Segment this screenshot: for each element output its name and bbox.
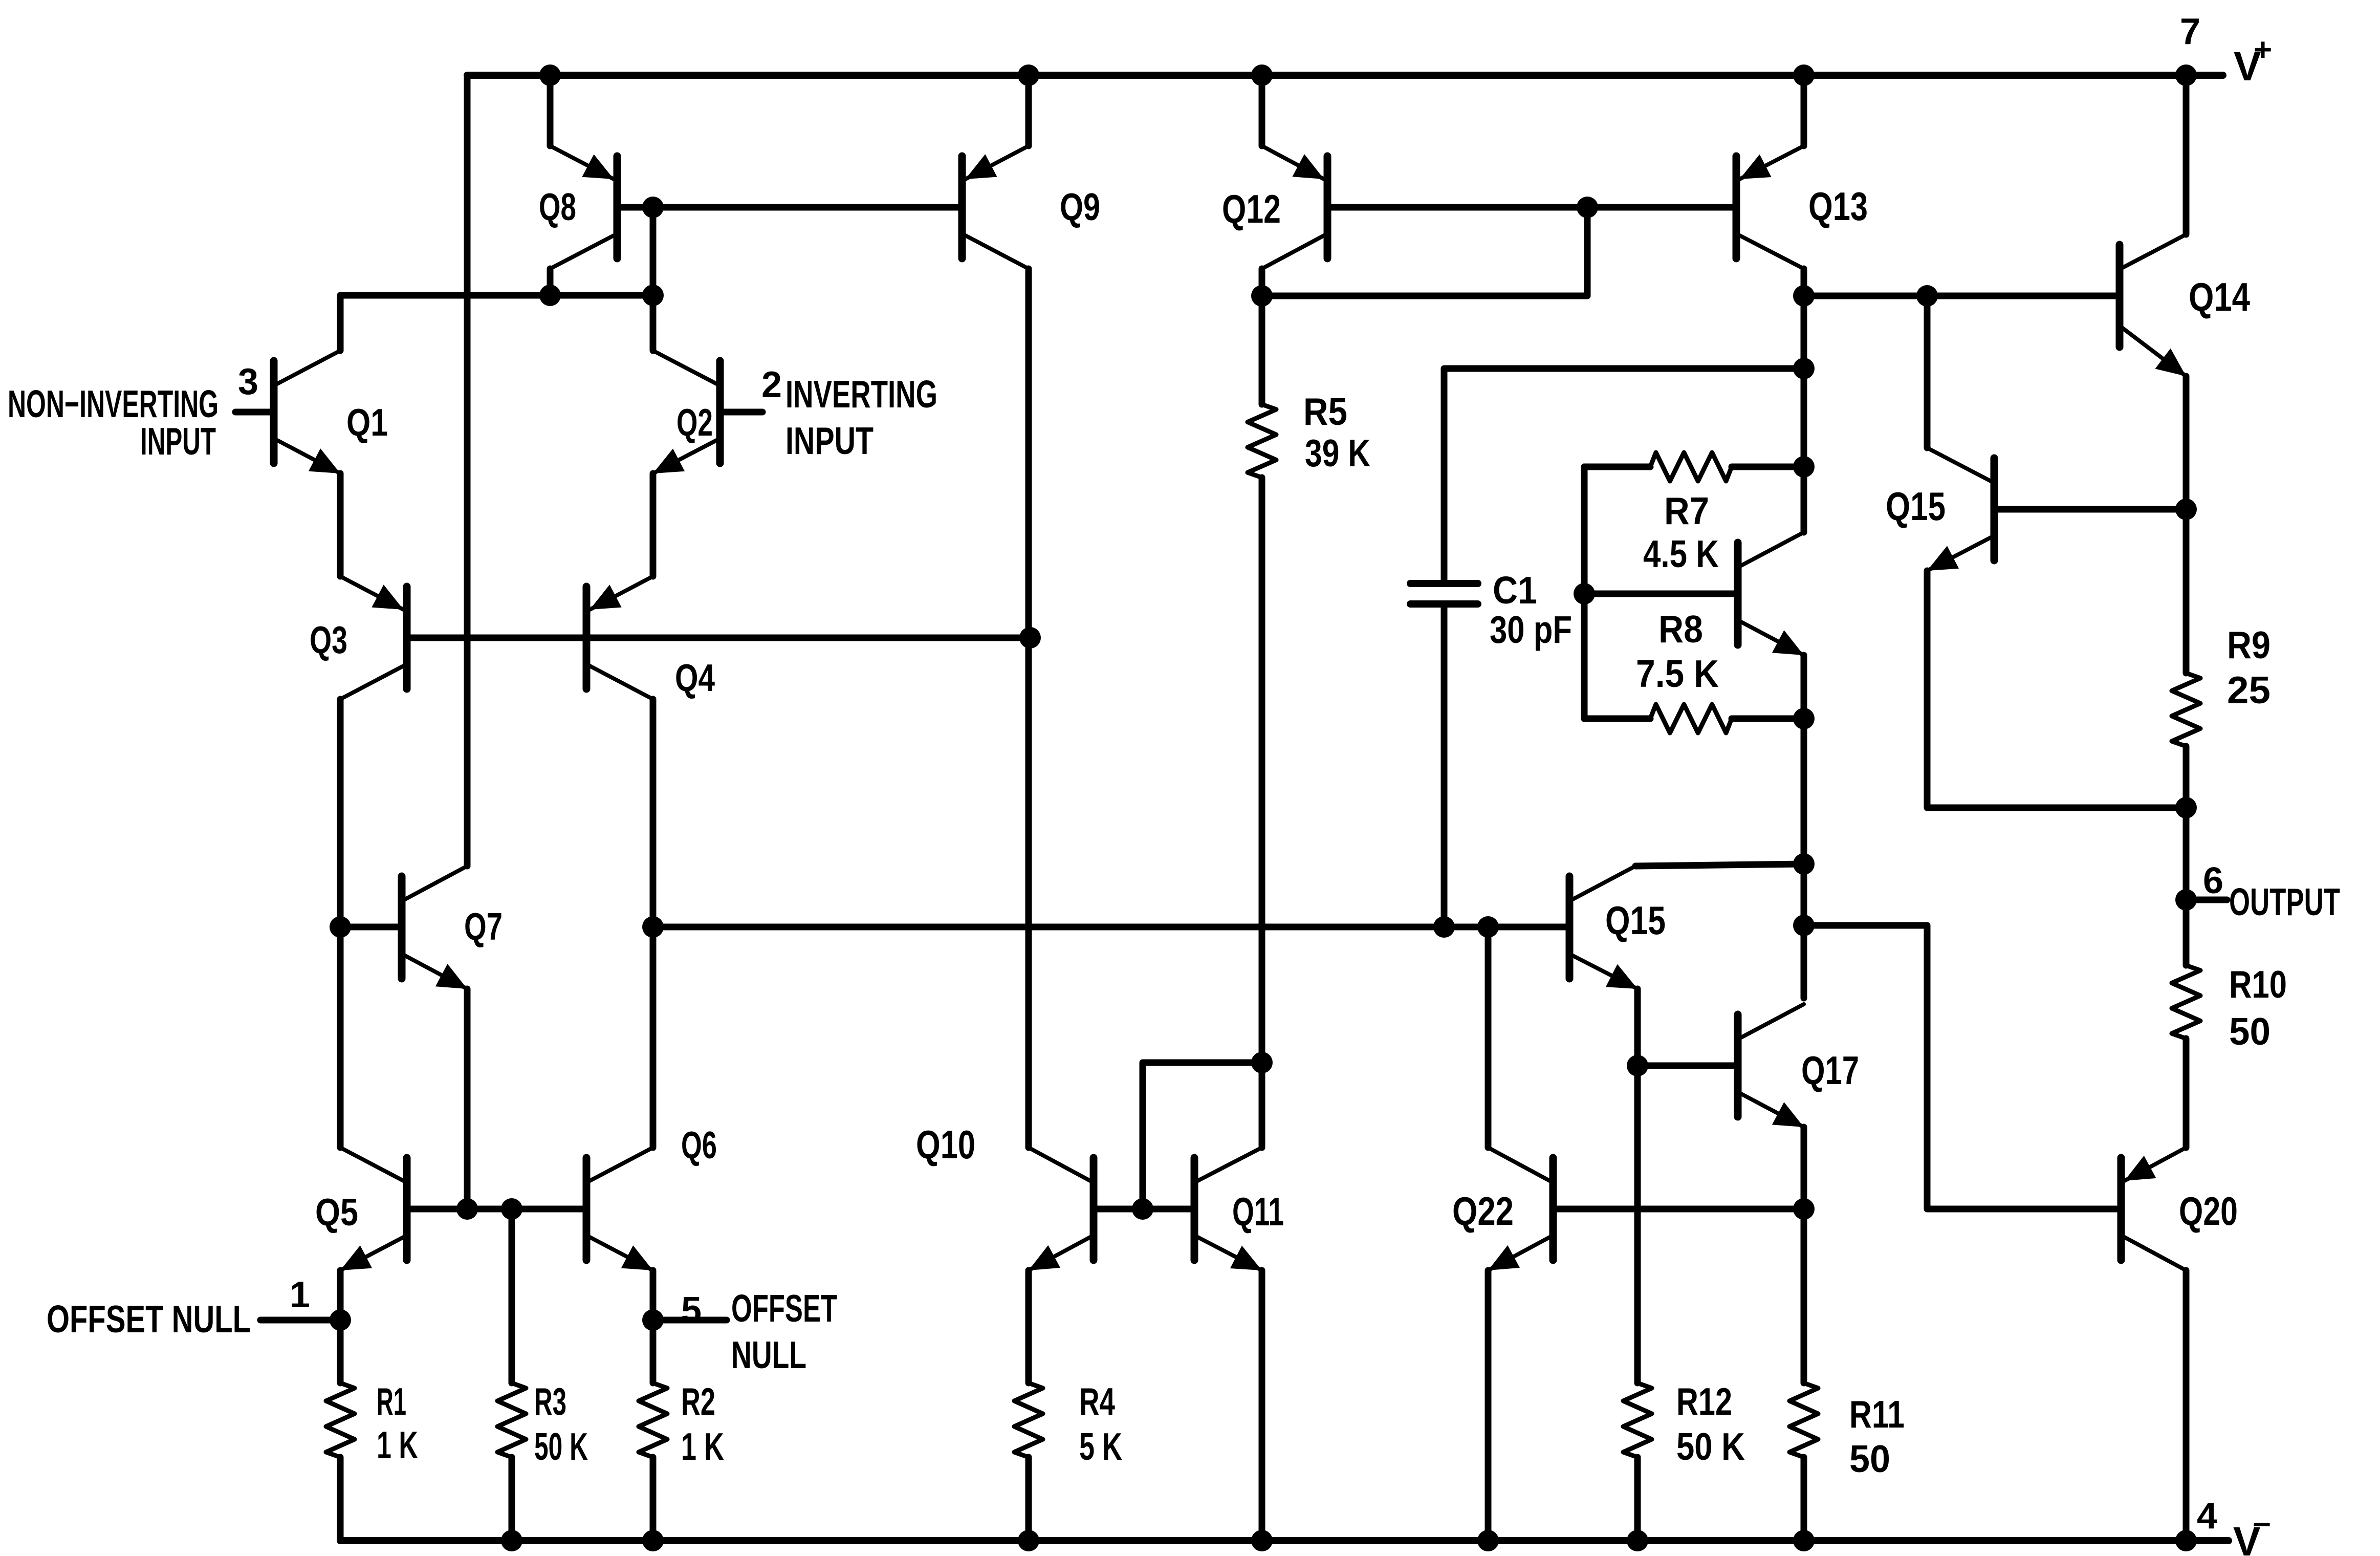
wire Q4 collector down	[650, 699, 657, 1148]
label offset null 5	[731, 1287, 837, 1376]
svg-text:−: −	[2253, 1507, 2271, 1542]
transistor Q11	[1194, 1148, 1284, 1270]
transistor Q15 (output)	[1886, 448, 1994, 571]
svg-text:R8: R8	[1658, 608, 1703, 651]
node R9 bottom junction	[2175, 797, 2197, 818]
svg-text:OUTPUT: OUTPUT	[2229, 880, 2340, 923]
wire Q12 emitter	[1259, 75, 1265, 146]
node R3 top junction	[501, 1198, 522, 1220]
svg-text:Q10: Q10	[916, 1122, 975, 1167]
wire Q13 collector bus mid	[1801, 719, 1807, 998]
svg-text:4.5 K: 4.5 K	[1643, 532, 1719, 575]
wire Q17 emitter down	[1801, 1127, 1807, 1209]
svg-text:Q5: Q5	[315, 1191, 358, 1234]
svg-text:R7: R7	[1664, 489, 1709, 532]
resistor R8	[1636, 608, 1732, 733]
svg-text:Q15: Q15	[1605, 898, 1666, 943]
wire Q15 VAS collector	[1635, 864, 1804, 866]
node R4 bottom junction	[1018, 1530, 1039, 1551]
svg-text:NON−INVERTING: NON−INVERTING	[8, 382, 219, 425]
svg-text:1 K: 1 K	[377, 1423, 418, 1466]
node Q7 base junction	[330, 916, 351, 938]
svg-text:50: 50	[2229, 1010, 2270, 1053]
wire R11 top lead	[1801, 1209, 1807, 1383]
wire Q22 emitter down	[1485, 1270, 1492, 1541]
label inverting input	[785, 373, 937, 462]
node Q8 emitter rail junction	[539, 64, 561, 86]
wire Q14 collector up	[2183, 75, 2190, 234]
wire Q7 emitter down	[464, 989, 471, 1209]
resistor R7	[1643, 452, 1732, 575]
node Q15 collector takeoff	[1916, 285, 1938, 307]
wire Q3 collector down	[337, 699, 344, 1148]
transistor Q13	[1736, 146, 1868, 269]
node pin 5 junction	[642, 1309, 664, 1331]
svg-text:NULL: NULL	[731, 1333, 806, 1376]
wire Q6 emitter down	[650, 1270, 657, 1320]
node Q11 emitter rail junction	[1251, 1530, 1273, 1551]
wire Q9 emitter	[1025, 75, 1032, 146]
transistor Q14	[2120, 234, 2250, 376]
node V+ terminal	[2175, 64, 2197, 86]
node Q20 base takeoff junction	[1793, 915, 1815, 936]
capacitor C1	[1410, 569, 1572, 651]
label OUTPUT	[2229, 880, 2340, 923]
svg-text:Q15: Q15	[1886, 484, 1946, 529]
transistor Q1	[274, 351, 388, 473]
svg-text:6: 6	[2203, 860, 2223, 901]
wire Q20 collector down	[2183, 1270, 2190, 1541]
svg-text:3: 3	[238, 361, 258, 402]
wire Q7 base lead	[340, 924, 398, 931]
node Q12 base junction	[1577, 197, 1598, 218]
svg-text:7: 7	[2180, 11, 2200, 52]
svg-text:5 K: 5 K	[1079, 1425, 1122, 1468]
wire Q13 collector bus upper	[1801, 296, 1807, 532]
wire VAS upper emitter down	[1801, 655, 1807, 719]
transistor Q5	[315, 1148, 407, 1270]
svg-text:C1: C1	[1493, 569, 1537, 612]
wire Q2 collector up	[650, 295, 657, 351]
svg-text:OFFSET: OFFSET	[731, 1287, 837, 1330]
node Q15 base junction	[2175, 499, 2197, 520]
svg-text:INPUT: INPUT	[785, 419, 874, 462]
node Q8 base bus junction	[642, 197, 664, 218]
node output junction	[2175, 889, 2197, 911]
wire R2 top lead	[650, 1320, 657, 1383]
node Q8 collector junction	[539, 285, 561, 306]
wire Q22 collector up	[1485, 927, 1492, 1148]
wire Q15 VAS emitter down	[1634, 989, 1641, 1066]
wire Q12 collector down	[1259, 269, 1265, 296]
wire Q10 emitter down	[1025, 1270, 1032, 1383]
wire Q13 collector down	[1801, 269, 1807, 296]
label V+	[2234, 32, 2272, 89]
node Q10 base junction	[1132, 1198, 1153, 1220]
label V-	[2233, 1507, 2271, 1556]
wire Q14 base bus	[1804, 293, 2116, 299]
node Q9 collector / base bias	[1019, 627, 1041, 649]
transistor Q7	[402, 866, 503, 989]
svg-text:R12: R12	[1676, 1380, 1732, 1423]
wire C1 bottom	[1441, 608, 1448, 927]
svg-text:Q2: Q2	[676, 401, 713, 444]
wire output lead	[2186, 897, 2227, 903]
wire Q15 emitter down	[1927, 571, 2186, 808]
wire Q10/Q11 base bus	[1097, 1206, 1191, 1213]
transistor Q3	[310, 576, 407, 699]
svg-text:39 K: 39 K	[1305, 431, 1370, 474]
svg-text:5: 5	[681, 1290, 702, 1331]
svg-text:Q22: Q22	[1452, 1188, 1514, 1234]
node C1 bottom junction	[1433, 916, 1455, 938]
transistor Q20	[2121, 1148, 2238, 1270]
wire Q22 base lead	[1557, 1206, 1804, 1213]
transistor Q6	[586, 1123, 717, 1270]
svg-text:+: +	[2254, 32, 2272, 68]
wire R3 bottom lead	[509, 1457, 515, 1541]
node pin 2 lead	[724, 409, 762, 416]
wire Q8/Q9 base bus	[621, 204, 958, 211]
wire Q10 base loop	[1143, 1063, 1262, 1209]
node R8 right junction	[1793, 708, 1815, 729]
node Q22 collector junction	[1477, 916, 1499, 938]
svg-text:30 pF: 30 pF	[1490, 608, 1572, 651]
pin 6 label	[2203, 860, 2223, 901]
pin 4 label	[2197, 1496, 2217, 1537]
svg-text:INVERTING: INVERTING	[785, 373, 937, 416]
wire R11 bottom lead	[1801, 1457, 1807, 1541]
node R5 top junction	[1251, 285, 1273, 307]
svg-text:R5: R5	[1303, 390, 1347, 433]
wire R3 vertical	[509, 1209, 515, 1383]
transistor Q9	[962, 146, 1100, 269]
wire C1 top	[1444, 369, 1804, 580]
wire Q20 base	[1804, 925, 2117, 1209]
svg-text:R9: R9	[2227, 623, 2270, 666]
transistor Q4	[586, 576, 715, 699]
resistor R11	[1789, 1383, 1905, 1480]
resistor R9	[2172, 623, 2270, 746]
wire Q2 emitter to Q4 emitter	[650, 473, 657, 576]
svg-text:7.5 K: 7.5 K	[1636, 652, 1719, 695]
node Q4 collector junction	[642, 916, 664, 938]
resistor R5	[1248, 390, 1370, 478]
wire Q11 emitter down	[1259, 1270, 1265, 1541]
pin 1 label	[290, 1274, 310, 1315]
wire R1 bottom lead	[337, 1457, 344, 1541]
svg-text:Q11: Q11	[1232, 1189, 1284, 1234]
svg-text:Q6: Q6	[681, 1123, 717, 1166]
wire pin 1 lead	[260, 1317, 340, 1324]
node Q7 emitter junction	[456, 1198, 478, 1220]
svg-text:1 K: 1 K	[681, 1425, 724, 1468]
resistor R4	[1014, 1380, 1122, 1468]
node Q12 emitter rail junction	[1251, 64, 1273, 86]
pin 7 label	[2180, 11, 2200, 52]
wire Q5/Q6 base bus	[410, 1206, 583, 1213]
node Q22 emitter rail junction	[1477, 1530, 1499, 1551]
svg-text:R4: R4	[1079, 1380, 1115, 1423]
svg-text:R10: R10	[2229, 963, 2287, 1006]
wire R12 vertical	[1634, 1066, 1641, 1383]
wire R2 bottom lead	[650, 1457, 657, 1541]
svg-text:Q8: Q8	[539, 185, 576, 228]
wire V- rail	[340, 1537, 2229, 1544]
svg-text:1: 1	[290, 1274, 310, 1315]
svg-text:Q3: Q3	[310, 618, 347, 661]
wire Q13 emitter	[1801, 75, 1807, 146]
wire Q8 base vertical	[650, 207, 657, 295]
wire R4 bottom lead	[1025, 1457, 1032, 1541]
pin 3 label	[238, 361, 258, 402]
node R7/R8 base junction	[1574, 583, 1595, 604]
node R7 right junction	[1793, 456, 1815, 478]
transistor Q17	[1738, 1004, 1859, 1127]
svg-text:R1: R1	[377, 1380, 406, 1423]
wire Q1 emitter to Q3 emitter	[337, 473, 344, 576]
wire Q15 collector up	[1924, 296, 1931, 448]
wire R7 left lead	[1584, 464, 1650, 470]
svg-text:INPUT: INPUT	[140, 420, 216, 463]
node pin 1 junction	[330, 1309, 351, 1331]
wire R1 top lead	[337, 1320, 344, 1383]
svg-text:R2: R2	[681, 1380, 715, 1423]
svg-text:Q1: Q1	[346, 401, 388, 444]
svg-text:50 K: 50 K	[534, 1425, 588, 1468]
svg-text:25: 25	[2227, 668, 2270, 711]
wire Q15 base lead	[1998, 506, 2186, 513]
node R11 bottom junction	[1793, 1530, 1815, 1551]
wire R12 bottom lead	[1634, 1457, 1641, 1541]
transistor Q12	[1222, 146, 1327, 269]
node pin 3 lead	[235, 409, 270, 416]
wire R9 bottom to output	[2183, 746, 2190, 900]
svg-text:Q7: Q7	[464, 905, 503, 948]
wire R8 right lead	[1732, 716, 1804, 722]
node Q17 base junction	[1627, 1055, 1648, 1076]
wire Q1/Q8 collector bus	[340, 292, 653, 299]
wire R10 bottom lead	[2183, 1039, 2190, 1148]
wire Q14 emitter down	[2183, 376, 2190, 673]
wire R5 top lead	[1259, 296, 1265, 404]
wire Q4 collector to Q15 base	[653, 924, 1566, 931]
label offset null 1	[47, 1298, 251, 1341]
svg-text:2: 2	[761, 364, 782, 405]
svg-text:50: 50	[1849, 1437, 1890, 1480]
wire Q8 emitter	[547, 75, 554, 146]
svg-text:Q14: Q14	[2189, 274, 2250, 319]
resistor R2	[639, 1380, 724, 1468]
wire pin 5 lead	[653, 1317, 727, 1324]
wire Q12 base tie	[1262, 207, 1587, 296]
svg-text:50 K: 50 K	[1676, 1425, 1745, 1468]
transistor Q15 (VAS)	[1569, 866, 1666, 989]
wire Q11 collector up	[1259, 478, 1265, 1148]
svg-text:Q13: Q13	[1808, 184, 1868, 229]
transistor Q2	[653, 351, 720, 473]
pin 2 label	[761, 364, 782, 405]
wire V+ rail	[467, 72, 2223, 79]
wire R10 top lead	[2183, 900, 2190, 965]
node R3 bottom junction	[501, 1530, 522, 1551]
svg-text:Q17: Q17	[1801, 1048, 1859, 1093]
node Q8 base junction	[642, 285, 664, 306]
resistor R12	[1623, 1380, 1745, 1468]
wire R7 right lead	[1732, 464, 1804, 470]
node Q22 base junction	[1793, 1198, 1815, 1220]
svg-text:Q4: Q4	[675, 656, 715, 699]
wire Q9 collector to Q10 collector	[1025, 269, 1032, 1148]
svg-text:R11: R11	[1849, 1393, 1905, 1436]
node Q13 emitter rail junction	[1793, 64, 1815, 86]
wire Q7 collector to V+	[464, 75, 471, 866]
wire Q12/Q13 base bus	[1331, 204, 1733, 211]
label non-inverting input	[8, 382, 219, 463]
wire Q8 collector down	[547, 269, 554, 295]
svg-text:R3: R3	[534, 1380, 566, 1423]
resistor R1	[326, 1380, 418, 1466]
wire R7/R8 left rail	[1581, 467, 1588, 719]
transistor Q10	[916, 1122, 1094, 1270]
wire Q17 base lead	[1637, 1063, 1734, 1069]
pin 5 label	[681, 1290, 702, 1331]
svg-text:Q9: Q9	[1060, 185, 1100, 228]
svg-text:Q12: Q12	[1222, 186, 1281, 231]
node R12 bottom junction	[1627, 1530, 1648, 1551]
node Q9 emitter rail junction	[1018, 64, 1039, 86]
wire Q3/Q4 base bus	[410, 635, 1030, 641]
node Q13 collector junction	[1793, 285, 1815, 307]
svg-text:Q20: Q20	[2179, 1188, 2238, 1234]
wire Q15 (VAS upper) base lead	[1584, 591, 1734, 597]
transistor Q22	[1452, 1148, 1553, 1270]
transistor Q8	[539, 146, 617, 269]
transistor Q15 (VAS upper, unlabeled)	[1738, 532, 1804, 655]
svg-text:4: 4	[2197, 1496, 2217, 1537]
wire Q5 emitter down	[337, 1270, 344, 1320]
resistor R3	[497, 1380, 588, 1468]
node Q11 collector loop junction	[1251, 1052, 1273, 1073]
wire R8 left lead	[1584, 716, 1650, 722]
node Q15 collector wire junction	[1793, 853, 1815, 875]
wire Q1 collector up	[337, 295, 344, 351]
resistor R10	[2172, 963, 2287, 1053]
node R2 bottom junction	[642, 1530, 664, 1551]
svg-text:OFFSET NULL: OFFSET NULL	[47, 1298, 251, 1341]
node C1 top junction	[1793, 358, 1815, 379]
node V- terminal	[2175, 1530, 2197, 1551]
